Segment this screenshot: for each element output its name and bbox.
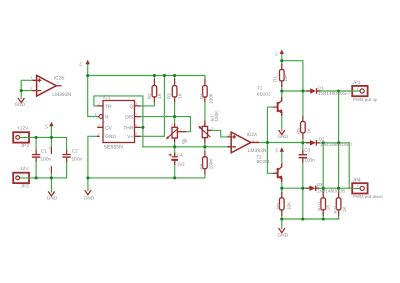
svg-text:V+: V+ — [274, 51, 279, 57]
svg-text:LM393N: LM393N — [52, 92, 71, 98]
svg-text:1N4148DO35: 1N4148DO35 — [317, 189, 346, 194]
svg-text:R11: R11 — [333, 205, 338, 214]
svg-text:R5: R5 — [296, 128, 301, 134]
svg-text:8: 8 — [135, 132, 137, 136]
svg-text:3: 3 — [228, 133, 230, 137]
svg-text:1N4148DO35-7: 1N4148DO35-7 — [318, 91, 351, 96]
svg-text:100n: 100n — [304, 157, 315, 163]
svg-text:R1: R1 — [273, 75, 278, 81]
svg-text:1K: 1K — [307, 127, 312, 134]
svg-text:R: R — [105, 115, 109, 121]
svg-text:JP2: JP2 — [21, 143, 30, 149]
svg-text:IC2B: IC2B — [54, 75, 65, 81]
svg-text:-12V: -12V — [19, 166, 30, 172]
svg-text:3: 3 — [135, 102, 137, 106]
svg-text:GND: GND — [47, 195, 58, 201]
svg-text:5: 5 — [98, 123, 100, 127]
svg-text:D2: D2 — [319, 136, 325, 141]
svg-text:2u2: 2u2 — [177, 161, 185, 166]
svg-text:6: 6 — [31, 87, 33, 91]
svg-text:10K: 10K — [286, 201, 291, 210]
svg-text:7: 7 — [135, 113, 137, 117]
svg-text:1: 1 — [357, 87, 359, 91]
svg-text:2: 2 — [228, 143, 230, 147]
svg-text:PWM pull up: PWM pull up — [353, 97, 378, 102]
svg-text:100K: 100K — [209, 92, 214, 104]
svg-text:GND: GND — [105, 134, 116, 140]
svg-text:5: 5 — [31, 76, 33, 80]
svg-text:LM393N: LM393N — [248, 148, 267, 154]
svg-text:3: 3 — [180, 128, 182, 132]
svg-text:GND: GND — [84, 195, 95, 201]
svg-text:R9: R9 — [276, 203, 281, 209]
svg-text:2: 2 — [98, 102, 100, 106]
svg-text:1: 1 — [48, 146, 50, 150]
svg-text:SE555N: SE555N — [104, 144, 124, 150]
svg-text:100K: 100K — [208, 158, 213, 170]
svg-text:V+: V+ — [274, 147, 279, 153]
svg-text:C4: C4 — [177, 153, 183, 158]
svg-text:JP3: JP3 — [20, 183, 29, 189]
svg-text:R8: R8 — [200, 163, 205, 169]
svg-text:2: 2 — [171, 138, 173, 142]
svg-text:JP4: JP4 — [352, 178, 361, 184]
svg-text:R10: R10 — [317, 202, 322, 211]
svg-text:3: 3 — [211, 126, 213, 130]
svg-text:D3: D3 — [317, 182, 323, 187]
svg-text:DIS: DIS — [125, 115, 133, 121]
svg-text:PWM pull down: PWM pull down — [353, 194, 383, 199]
svg-text:THR: THR — [123, 125, 133, 131]
svg-text:R4: R4 — [200, 93, 205, 99]
svg-text:1: 1 — [48, 167, 50, 171]
svg-text:100K: 100K — [214, 110, 219, 122]
svg-text:+12V: +12V — [17, 125, 29, 131]
svg-text:1K: 1K — [177, 92, 182, 99]
svg-text:1K: 1K — [326, 204, 331, 211]
svg-text:BD202: BD202 — [257, 91, 271, 96]
svg-text:1: 1 — [20, 133, 22, 137]
svg-text:V+: V+ — [127, 134, 133, 140]
svg-text:C3: C3 — [304, 148, 310, 154]
svg-text:V+: V+ — [44, 123, 49, 129]
svg-text:IC1: IC1 — [103, 95, 111, 101]
svg-text:4: 4 — [95, 112, 97, 116]
svg-text:1K: 1K — [342, 205, 347, 212]
svg-text:1: 1 — [98, 132, 100, 136]
svg-text:V+: V+ — [78, 61, 83, 67]
svg-text:6: 6 — [135, 123, 137, 127]
svg-text:C2: C2 — [72, 148, 78, 154]
svg-text:Q: Q — [129, 104, 133, 110]
svg-text:7: 7 — [57, 82, 59, 86]
svg-text:JP1: JP1 — [352, 80, 361, 86]
svg-text:1: 1 — [171, 123, 173, 127]
svg-text:1K: 1K — [157, 92, 162, 99]
svg-text:T1: T1 — [257, 86, 263, 91]
svg-text:R3: R3 — [167, 93, 172, 99]
svg-text:1: 1 — [357, 184, 359, 188]
svg-text:1N4148DO35-7: 1N4148DO35-7 — [320, 142, 353, 147]
svg-text:TR: TR — [105, 104, 112, 110]
svg-text:R2: R2 — [147, 93, 152, 99]
svg-text:CV: CV — [105, 125, 112, 131]
svg-text:C1: C1 — [41, 148, 47, 154]
svg-text:100n: 100n — [41, 157, 52, 163]
svg-text:IC2A: IC2A — [247, 132, 258, 138]
svg-text:5K: 5K — [184, 138, 188, 143]
svg-text:BD201: BD201 — [257, 159, 271, 164]
svg-text:10K: 10K — [283, 73, 288, 82]
svg-text:GND: GND — [14, 102, 25, 108]
svg-text:GND: GND — [277, 233, 288, 239]
svg-text:1: 1 — [252, 138, 254, 142]
svg-text:1: 1 — [20, 174, 22, 178]
svg-text:GND: GND — [277, 134, 288, 140]
svg-text:100n: 100n — [72, 157, 83, 163]
